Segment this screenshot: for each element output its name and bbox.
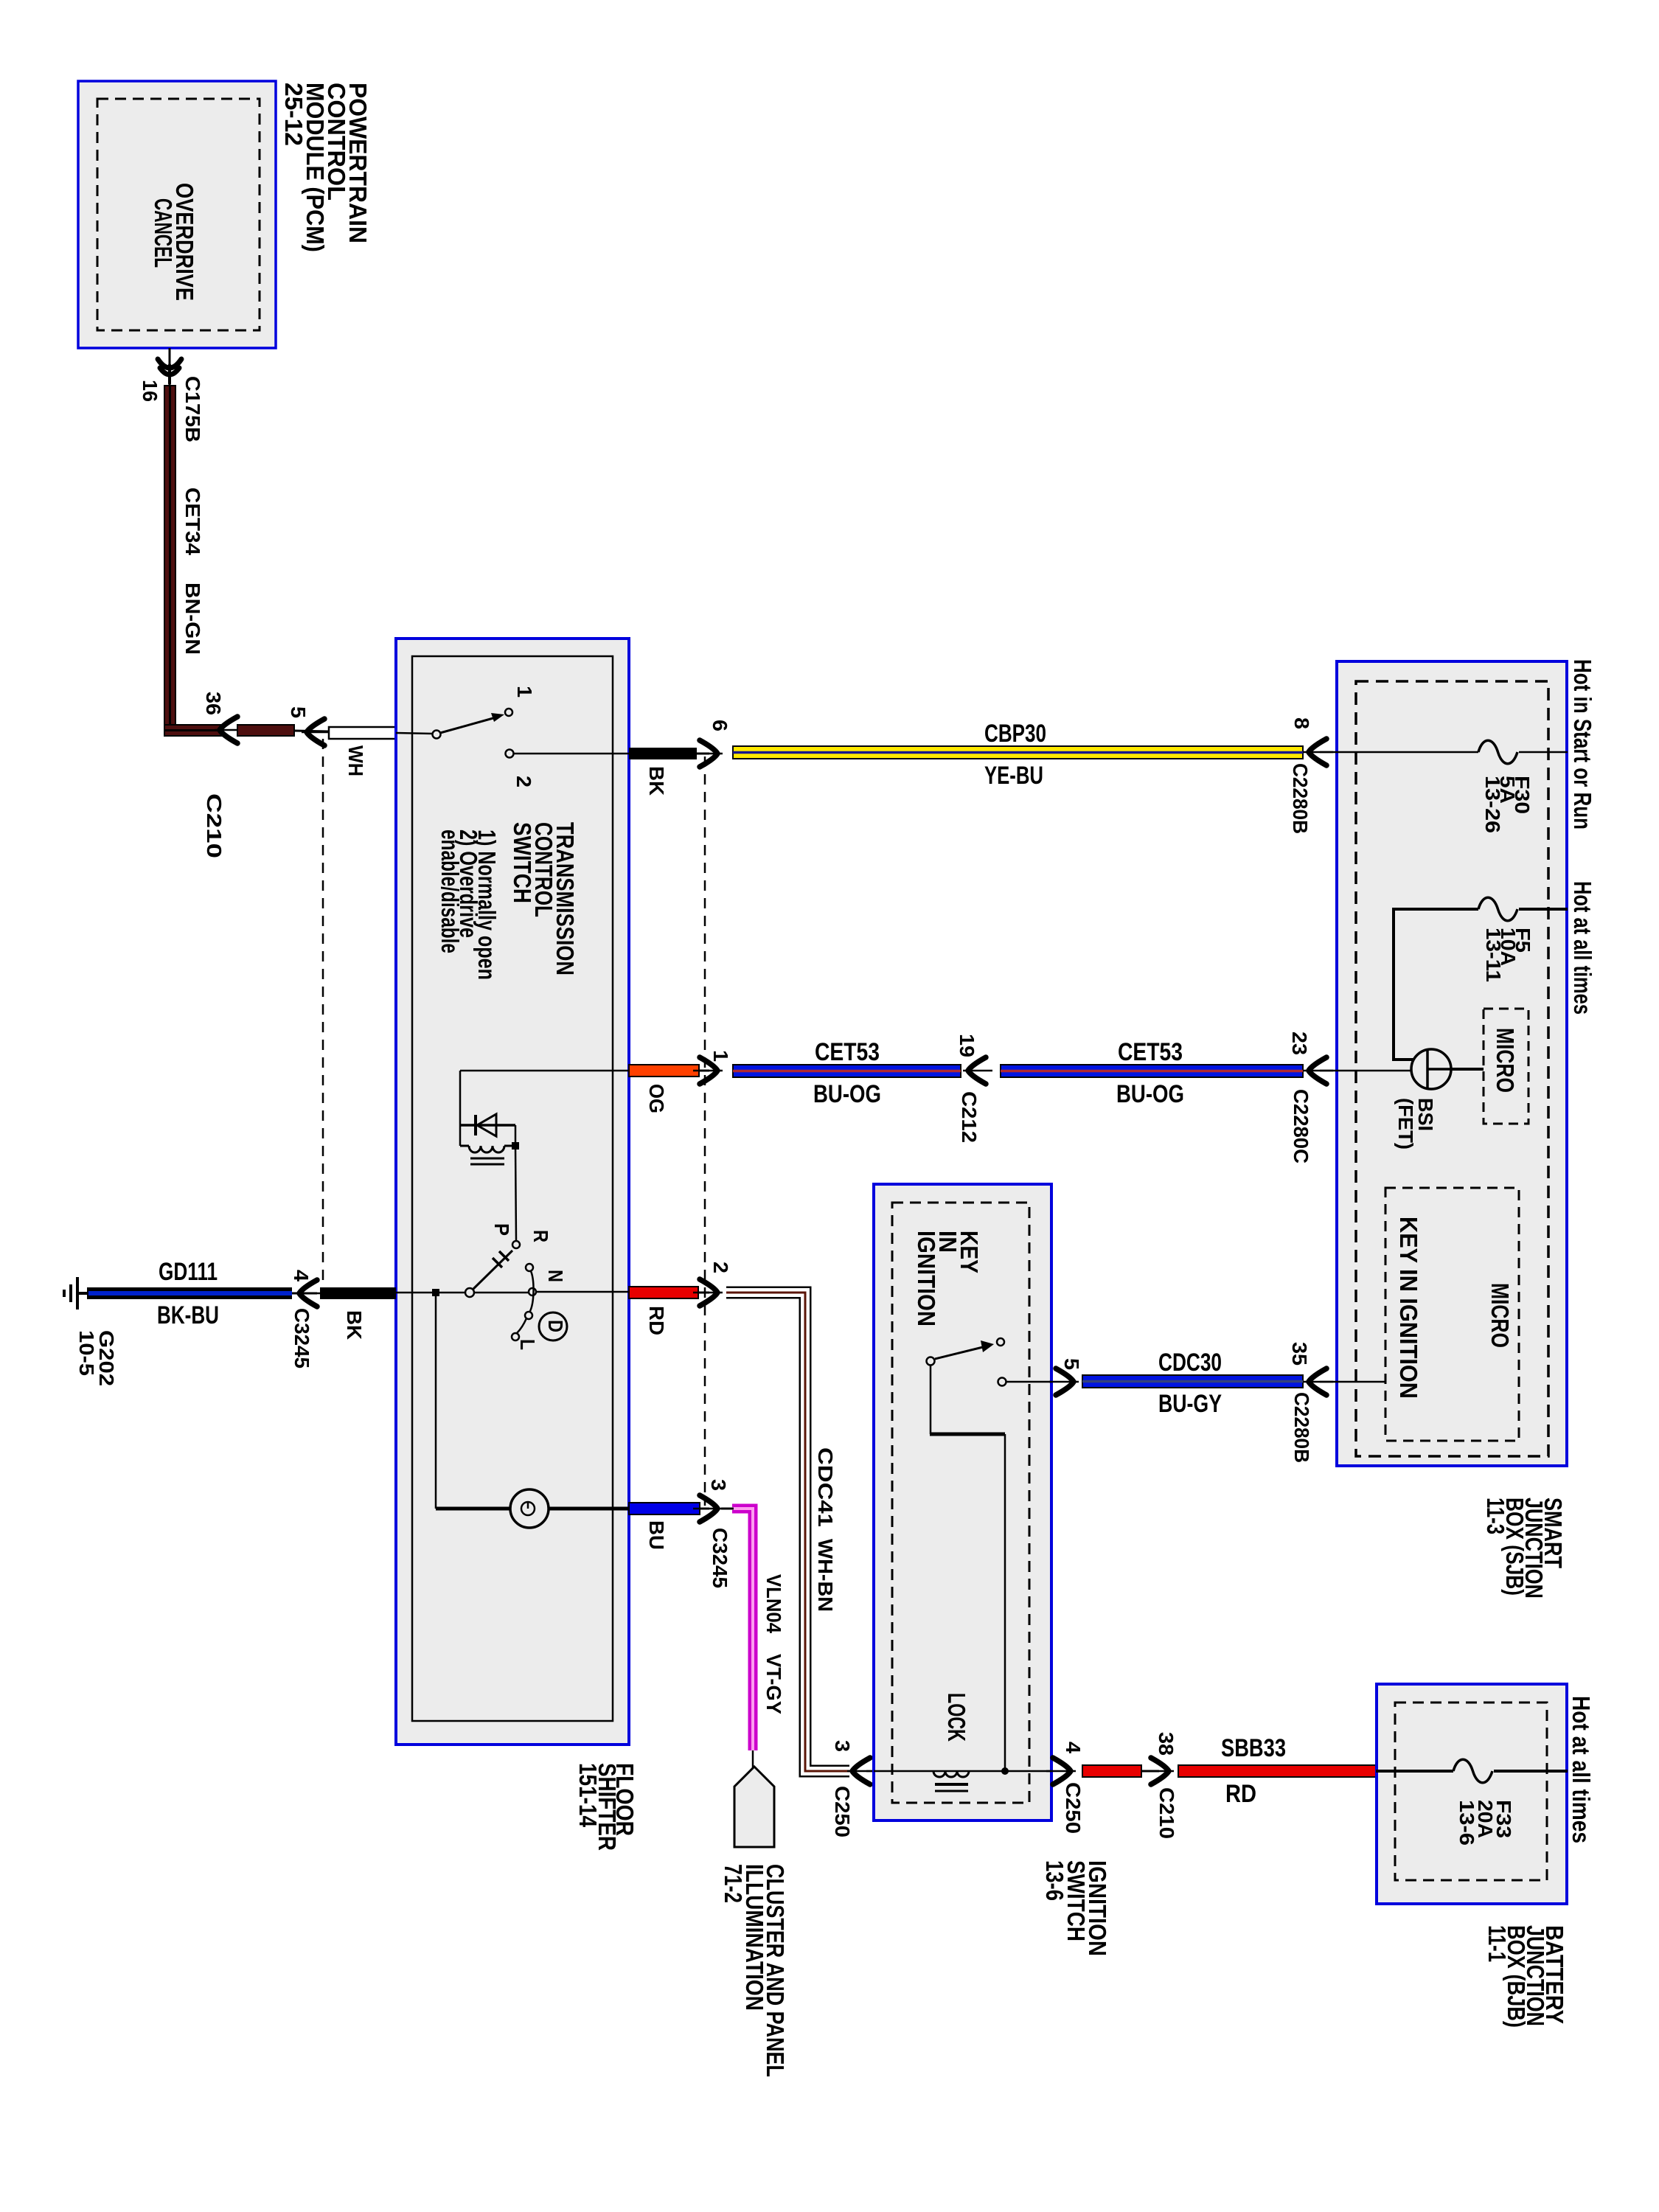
TCS solenoid circuit: OG line: [460, 1070, 629, 1072]
svg-text:8: 8: [1290, 717, 1313, 729]
svg-text:C2280C: C2280C: [1290, 1089, 1312, 1164]
rotary blade: [473, 1251, 512, 1289]
connector chevron pin 4 C250: [1046, 1758, 1076, 1784]
svg-text:CET53: CET53: [1118, 1038, 1183, 1066]
cluster illumination label: [720, 1864, 789, 2077]
svg-text:IGNITION: IGNITION: [913, 1231, 940, 1326]
connector chevron pin 38 C210: [1144, 1758, 1174, 1784]
violet wire VLN04 VT-GY: [732, 1509, 753, 1750]
wire contact to pin 5: [1006, 1381, 1051, 1383]
svg-text:13-6: 13-6: [1041, 1860, 1068, 1901]
BJB feed line: [1376, 1770, 1453, 1773]
svg-text:D: D: [544, 1320, 567, 1332]
svg-text:N: N: [544, 1270, 567, 1282]
wire SBB33 RD: [1178, 1765, 1376, 1777]
connector chevron pin 4 C3245: [294, 1280, 324, 1307]
svg-text:C212: C212: [958, 1091, 981, 1143]
ground line entering TCS: [396, 1292, 529, 1294]
blade arrow marks: [493, 1251, 509, 1267]
wire pin35 into SJB: [1320, 1381, 1385, 1383]
wire from PCM pin 16: [169, 348, 171, 386]
connector chevron pin 8 C2280B: [1304, 739, 1333, 765]
wire contact 2 to BK stub: [514, 753, 629, 755]
KEY IN IGNITION dashed box SJB: [1385, 1188, 1519, 1441]
svg-text:151-14: 151-14: [574, 1763, 602, 1828]
off-page arrow cluster illumination: [734, 1767, 774, 1847]
fuse F30 label: [1481, 776, 1534, 833]
svg-text:GD111: GD111: [159, 1258, 218, 1286]
svg-text:C175B: C175B: [181, 376, 204, 442]
diode branch line: [460, 1124, 515, 1127]
ignition switch box: [874, 1184, 1051, 1820]
ignition switch L wire: [930, 1366, 932, 1434]
svg-text:C3245: C3245: [291, 1308, 313, 1368]
ignition switch blade: [935, 1346, 986, 1359]
wire coil to contact: [515, 1146, 516, 1241]
svg-text:11-3: 11-3: [1482, 1498, 1509, 1534]
rotary contacts circles: [526, 1264, 533, 1271]
KEY IN IGNITION label: [913, 1231, 983, 1326]
svg-text:23: 23: [1288, 1032, 1311, 1055]
svg-text:CDC41: CDC41: [814, 1447, 837, 1527]
contact P/R circle: [512, 1241, 520, 1248]
wire CET34 BN-GN vertical: [164, 386, 175, 730]
fuse F5 label: [1482, 928, 1534, 982]
wire contact to RD stub: [536, 1291, 629, 1293]
svg-text:11-1: 11-1: [1484, 1925, 1511, 1962]
svg-text:C2280B: C2280B: [1290, 1392, 1313, 1463]
junction node coil line: [1001, 1767, 1009, 1775]
svg-text:R: R: [529, 1230, 552, 1242]
FLOOR SHIFTER label: [574, 1763, 639, 1851]
svg-text:BN-GN: BN-GN: [181, 582, 204, 655]
ground symbol G202: [64, 1277, 87, 1310]
svg-text:LOCK: LOCK: [943, 1693, 970, 1742]
svg-text:C3245: C3245: [709, 1528, 731, 1588]
svg-text:MICRO: MICRO: [1486, 1283, 1514, 1348]
svg-text:CBP30: CBP30: [984, 720, 1046, 748]
svg-text:SBB33: SBB33: [1221, 1734, 1286, 1762]
svg-text:13-6: 13-6: [1455, 1800, 1478, 1846]
svg-text:35: 35: [1288, 1342, 1311, 1366]
wire pin23 to BSI FET: [1320, 1070, 1411, 1072]
svg-text:1: 1: [709, 1050, 732, 1062]
svg-text:Hot at all times: Hot at all times: [1569, 881, 1596, 1015]
fuse F33 label: [1455, 1800, 1515, 1846]
smart junction box SJB: [1337, 661, 1567, 1466]
PCM label: [280, 83, 372, 252]
contact 1 circle: [505, 709, 512, 716]
svg-text:L: L: [516, 1339, 539, 1350]
svg-text:BU: BU: [645, 1520, 668, 1550]
svg-text:BU-OG: BU-OG: [1116, 1080, 1184, 1108]
svg-text:MICRO: MICRO: [1492, 1028, 1519, 1093]
wire to chevron 4: [292, 1293, 317, 1295]
IGNITION SWITCH label: [1041, 1860, 1111, 1956]
fuse F33: [1453, 1759, 1492, 1783]
svg-text:C250: C250: [831, 1786, 854, 1837]
svg-text:5: 5: [1060, 1358, 1083, 1370]
svg-text:(FET): (FET): [1394, 1098, 1417, 1150]
connector chevron pin 2 C3245: [698, 1292, 709, 1294]
svg-text:3: 3: [707, 1479, 730, 1491]
connector chevron pin 3 C3245: [693, 1495, 723, 1522]
svg-text:enable/disable: enable/disable: [437, 829, 464, 953]
switch contact 1 wiring: [396, 733, 433, 734]
svg-text:CDC30: CDC30: [1158, 1349, 1222, 1377]
svg-text:CET53: CET53: [815, 1038, 880, 1066]
orange stub OG: [629, 1065, 699, 1077]
battery junction box BJB: [1377, 1684, 1567, 1904]
BSI FET label: [1394, 1098, 1437, 1150]
wire down from OG line: [459, 1071, 462, 1146]
junction node lamp feed: [432, 1289, 439, 1296]
svg-text:P: P: [490, 1223, 513, 1236]
BSI FET transistor: [1411, 1049, 1451, 1089]
connector chevron pin 19 C212: [963, 1057, 992, 1084]
junction node coil/diode: [512, 1142, 519, 1150]
wire WH white outlined: [329, 727, 396, 739]
lock coil line: [874, 1770, 1051, 1773]
connector chevron pin 5 C3245: [302, 719, 331, 745]
svg-text:Hot at all times: Hot at all times: [1568, 1696, 1595, 1843]
svg-text:C250: C250: [1062, 1782, 1085, 1834]
svg-text:C2280B: C2280B: [1289, 763, 1312, 834]
contact arc: [517, 1271, 534, 1333]
lamp feed vertical wire: [435, 1293, 437, 1509]
svg-text:SWITCH: SWITCH: [509, 822, 536, 903]
coil core lines: [470, 1158, 504, 1160]
transmission control switch box: [396, 639, 629, 1745]
svg-text:16: 16: [139, 380, 161, 402]
wire CET53 BU-OG segment B: [1001, 1065, 1303, 1077]
BJB label: [1484, 1925, 1568, 2028]
ground wire GD111 BK-BU: [87, 1287, 292, 1299]
ignition key switch pole: [927, 1357, 935, 1366]
svg-text:10-5: 10-5: [75, 1330, 98, 1376]
powertrain control module (PCM) box: [78, 81, 276, 348]
connector arrow pin 16: [158, 359, 181, 383]
svg-text:25-12: 25-12: [280, 83, 307, 146]
svg-text:BK: BK: [645, 766, 668, 796]
svg-text:C210: C210: [1155, 1787, 1178, 1839]
svg-text:13-26: 13-26: [1481, 776, 1504, 833]
svg-text:C210: C210: [203, 793, 226, 858]
fuse F5 feed line thick: [1394, 908, 1478, 911]
connector chevron pin 5 ignition: [1049, 1368, 1079, 1395]
svg-text:RD: RD: [1225, 1780, 1256, 1808]
svg-text:13-11: 13-11: [1482, 928, 1505, 982]
diode right leg: [515, 1125, 517, 1146]
connector C210 chevron pin 36: [215, 717, 244, 743]
svg-text:38: 38: [1155, 1732, 1178, 1756]
wire CET34 segment after C210: [237, 725, 294, 736]
svg-text:19: 19: [956, 1034, 978, 1057]
svg-text:CANCEL: CANCEL: [150, 198, 177, 268]
lamp line thick: [436, 1507, 629, 1511]
wire to pin 5: [294, 731, 329, 731]
shift indicator lamp: [510, 1489, 549, 1528]
wire CET53 BU-OG segment A: [733, 1065, 961, 1077]
wire FET to MICRO: [1451, 1068, 1484, 1071]
SJB label: [1482, 1498, 1567, 1599]
wire CDC41 WH-BN white/brown L-run: [726, 1293, 849, 1771]
svg-text:4: 4: [1062, 1742, 1085, 1753]
diode D1: [476, 1114, 496, 1136]
MICRO dashed box BSI: [1484, 1009, 1528, 1124]
svg-text:VT-GY: VT-GY: [762, 1654, 785, 1714]
svg-text:BK-BU: BK-BU: [157, 1301, 219, 1329]
wire end to off-page arrow: [752, 1750, 754, 1770]
svg-text:KEY IN IGNITION: KEY IN IGNITION: [1395, 1217, 1422, 1399]
wire F5 to BSI FET: [1392, 908, 1395, 1060]
svg-text:4: 4: [290, 1270, 313, 1281]
wire CBP30 YE-BU: [733, 746, 1303, 759]
wire stub RD ignition feed: [1082, 1765, 1141, 1777]
TCS notes: [437, 829, 501, 980]
connector chevron pin 35 C2280B: [1304, 1368, 1333, 1395]
wire stub BK: [629, 748, 697, 759]
svg-text:OG: OG: [645, 1084, 668, 1113]
svg-text:Hot in Start or Run: Hot in Start or Run: [1569, 659, 1596, 829]
contact 2 circle: [506, 750, 514, 758]
svg-text:WH-BN: WH-BN: [814, 1539, 837, 1612]
lock coil: [933, 1771, 969, 1777]
ignition switch output contact: [998, 1378, 1006, 1386]
svg-text:71-2: 71-2: [720, 1864, 747, 1903]
wire stub BK ground side: [320, 1287, 396, 1299]
TCS label: [509, 822, 579, 975]
connector chevron pin 3 C250: [847, 1758, 877, 1784]
fuse F5: [1478, 897, 1517, 921]
connector chevron pin 23 C2280C: [1304, 1057, 1333, 1084]
wire CDC30 BU-GY: [1082, 1375, 1303, 1388]
connector chevron pin 1 C3245: [693, 1057, 723, 1084]
wire stub BU: [629, 1503, 700, 1514]
rotary switch pole: [465, 1288, 474, 1297]
svg-text:2: 2: [709, 1262, 732, 1273]
svg-text:CET34: CET34: [181, 487, 204, 555]
fuse F30 feed line: [1320, 751, 1478, 754]
svg-text:5: 5: [287, 706, 310, 718]
connector boundary dashed C3245 right: [704, 757, 706, 1506]
svg-text:VLN04: VLN04: [762, 1574, 785, 1633]
svg-text:BK: BK: [343, 1310, 366, 1340]
connector chevron pin 6 C3245: [693, 740, 723, 767]
wire stub RD: [629, 1287, 698, 1298]
svg-text:YE-BU: YE-BU: [984, 762, 1043, 790]
svg-text:2: 2: [512, 776, 535, 787]
svg-text:1: 1: [513, 686, 536, 698]
svg-text:36: 36: [202, 692, 225, 715]
svg-text:WH: WH: [344, 745, 367, 776]
solenoid coil L1: [460, 1146, 515, 1152]
ignition switch top contact: [997, 1338, 1004, 1346]
wire CET34 horizontal to C210: [164, 725, 223, 736]
svg-text:3: 3: [831, 1740, 854, 1752]
switch pole contact: [433, 731, 441, 739]
fuse F30: [1478, 740, 1517, 764]
svg-text:BU-GY: BU-GY: [1158, 1390, 1222, 1418]
svg-text:BU-OG: BU-OG: [813, 1080, 881, 1108]
svg-text:RD: RD: [645, 1306, 668, 1335]
connector boundary dashed C3245 left: [322, 739, 324, 1293]
switch blade: [440, 717, 498, 733]
svg-text:6: 6: [709, 720, 731, 731]
